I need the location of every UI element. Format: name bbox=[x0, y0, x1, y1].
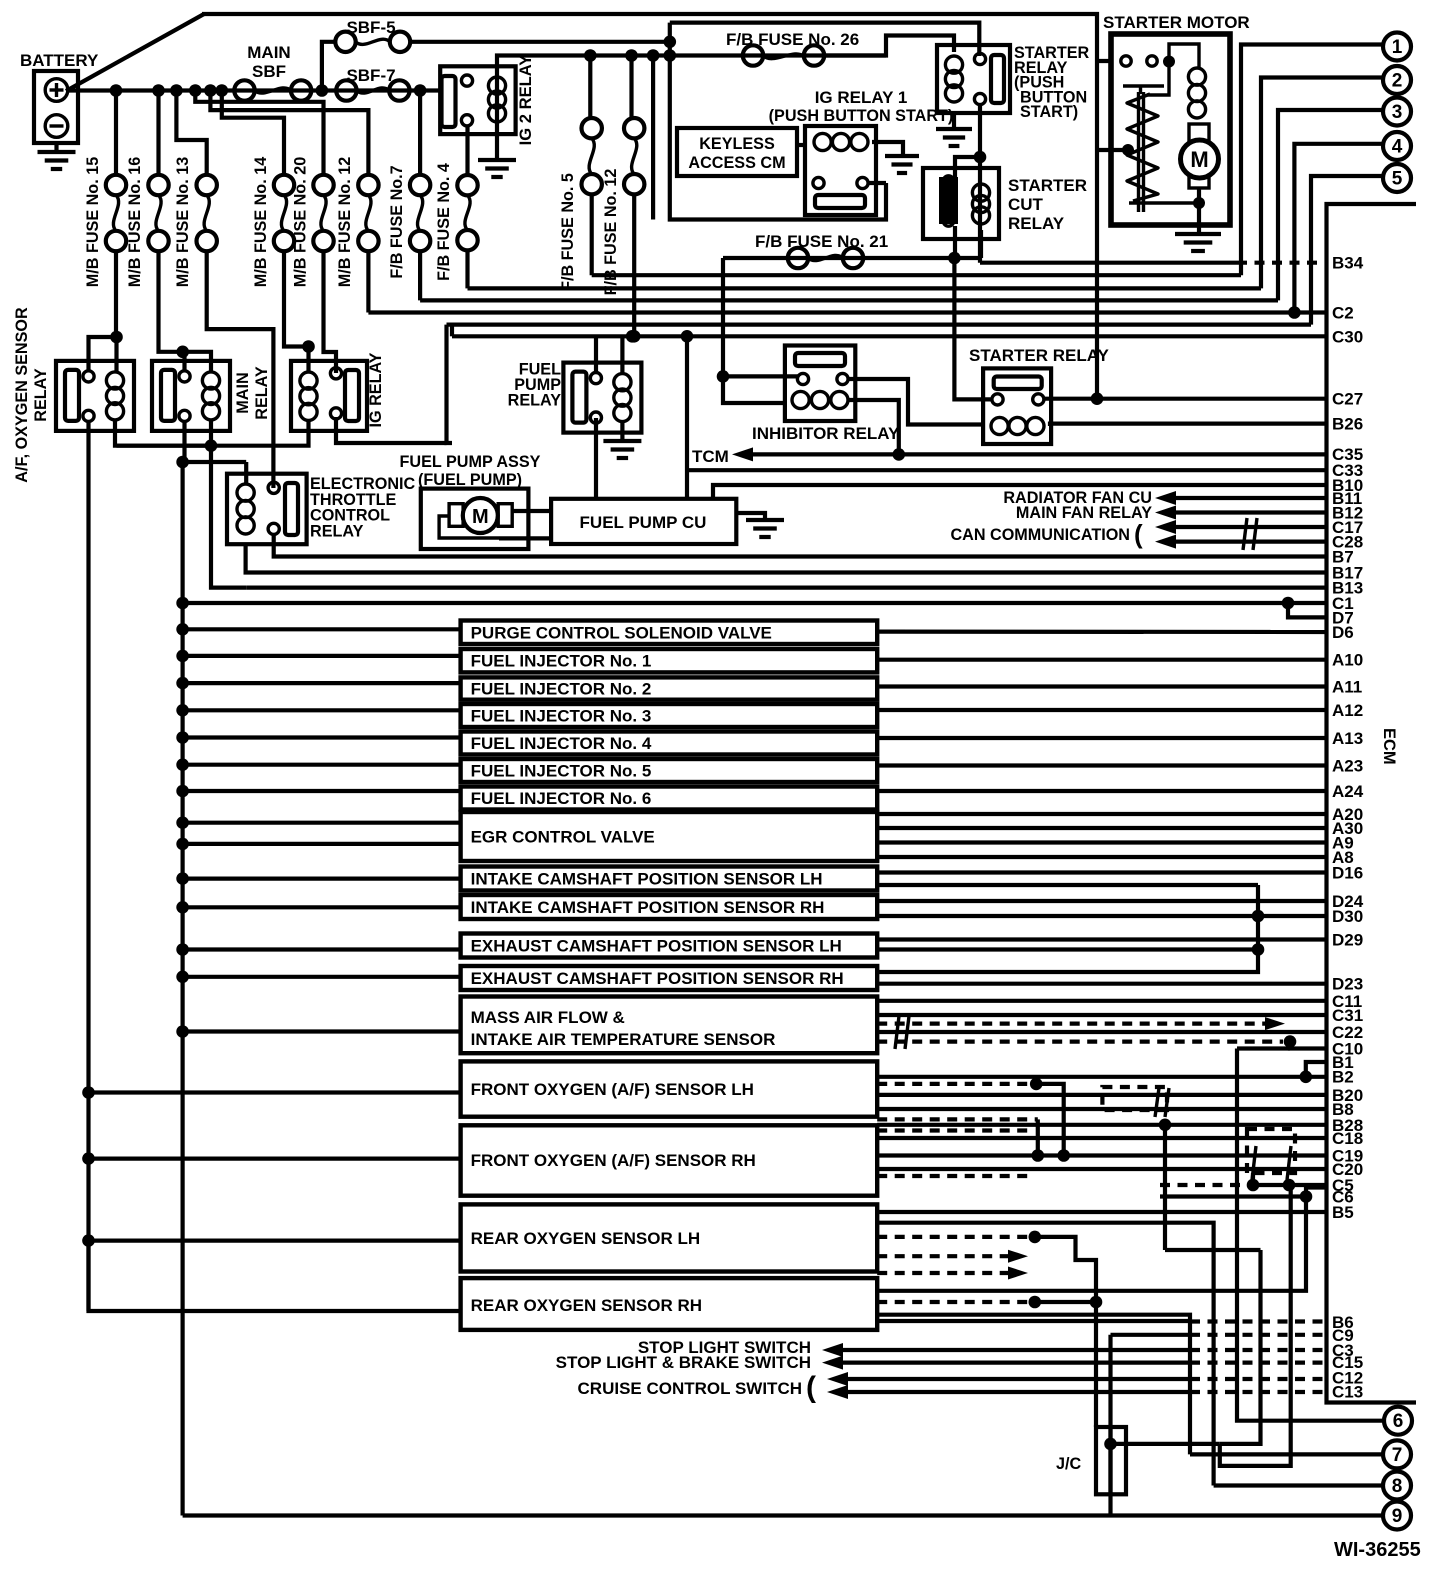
fuse F/B FUSE No. 12 bbox=[624, 118, 644, 194]
wire inj3 pin A12 bbox=[877, 708, 1326, 712]
wire C27 row bbox=[1044, 397, 1326, 401]
svg-text:CUT: CUT bbox=[1008, 195, 1044, 214]
wire IG relay contact out bbox=[336, 417, 447, 443]
wire J/C stub to row9 bbox=[1108, 1494, 1112, 1515]
svg-text:C13: C13 bbox=[1332, 1382, 1363, 1401]
junction C6 bbox=[1300, 1190, 1313, 1203]
wire M/B fuse13 to ETC relay bbox=[207, 251, 274, 488]
wire fp relay contact to CU bbox=[594, 418, 598, 499]
wire fp relay contact feed bbox=[594, 336, 598, 374]
svg-text:FUEL INJECTOR No. 3: FUEL INJECTOR No. 3 bbox=[471, 707, 652, 726]
svg-text:D6: D6 bbox=[1332, 623, 1354, 642]
motor M bbox=[1181, 140, 1219, 178]
junction rear RH shield bbox=[1029, 1296, 1042, 1309]
relay inhibitor bbox=[785, 346, 855, 422]
arrow rear shield c bbox=[1008, 1267, 1028, 1280]
wire circle7 horizontal bbox=[1190, 1452, 1383, 1456]
wire cam jog vertical bbox=[877, 885, 1258, 972]
starter plunger bbox=[1189, 124, 1209, 188]
ground fuel pump relay bbox=[603, 441, 641, 458]
connector circle 2 bbox=[1383, 66, 1411, 94]
svg-text:RELAY: RELAY bbox=[508, 392, 562, 410]
svg-text:START): START) bbox=[1020, 103, 1078, 121]
svg-text:D29: D29 bbox=[1332, 931, 1363, 950]
battery ground bbox=[54, 143, 58, 152]
wire main contact bus down bbox=[181, 462, 185, 1516]
wire B28 row bbox=[877, 1123, 1326, 1127]
wire egr pin A9 bbox=[877, 840, 1326, 844]
svg-text:B5: B5 bbox=[1332, 1203, 1354, 1222]
arrow TCM bbox=[732, 447, 753, 461]
junction bus x=420.1 bbox=[414, 84, 427, 97]
connector circle 4 bbox=[1383, 132, 1411, 160]
svg-text:CRUISE CONTROL SWITCH: CRUISE CONTROL SWITCH bbox=[578, 1379, 802, 1398]
wire inhibitor pin feed bbox=[723, 374, 798, 378]
EXHAUST CAMSHAFT POSITION SENSOR RH box bbox=[461, 966, 878, 990]
wire M/B fuse16 to main relay bbox=[159, 251, 183, 352]
maf shield dashed bottom bbox=[877, 1039, 1283, 1043]
wire IG2 coil ground stem bbox=[495, 134, 499, 160]
wire PBS pin to B34 bbox=[978, 183, 982, 263]
svg-text:EGR CONTROL VALVE: EGR CONTROL VALVE bbox=[471, 828, 655, 847]
svg-text:RELAY: RELAY bbox=[310, 522, 364, 540]
rear shield dashed c bbox=[877, 1271, 1008, 1275]
FUEL INJECTOR No. 1 box bbox=[461, 649, 878, 672]
svg-text:F/B FUSE No. 5: F/B FUSE No. 5 bbox=[559, 173, 577, 291]
arrow C13 bbox=[827, 1385, 848, 1399]
junction C2 bbox=[1288, 306, 1301, 319]
arrow rear LH shield bbox=[1008, 1250, 1028, 1263]
junction F/B fuse12 feed bbox=[625, 49, 638, 62]
junction bus stub y=737.5 bbox=[176, 731, 189, 744]
svg-text:(: ( bbox=[806, 1371, 816, 1404]
junction C5 bbox=[1247, 1179, 1260, 1192]
wire cam jog intake LH bbox=[877, 883, 1258, 887]
junction bus stub y=878.6 bbox=[176, 872, 189, 885]
KEYLESS ACCESS CM box bbox=[677, 128, 797, 176]
FUEL INJECTOR No. 4 box bbox=[461, 732, 878, 755]
EGR CONTROL VALVE box bbox=[461, 812, 878, 861]
wire feed M/B fuse 13 bbox=[176, 91, 206, 177]
wire PBS pin down bbox=[978, 104, 982, 183]
wire fp relay coil ground bbox=[620, 422, 624, 441]
junction SBF-5 enclosure bbox=[664, 36, 677, 49]
wire to circle 4 bbox=[1294, 144, 1382, 313]
svg-text:M/B FUSE No. 12: M/B FUSE No. 12 bbox=[336, 157, 354, 287]
svg-text:M/B FUSE No. 16: M/B FUSE No. 16 bbox=[126, 157, 144, 287]
wire row 3 (fuse7) bbox=[420, 298, 1278, 302]
fuse F/B FUSE No. 7 bbox=[410, 175, 430, 251]
FUEL INJECTOR No. 6 box bbox=[461, 787, 878, 810]
wire circle6 vertical bbox=[1237, 1049, 1383, 1421]
wire SBF-5 to enclosure bbox=[410, 40, 670, 44]
junction oxygen feed y=1092.5 bbox=[82, 1086, 95, 1099]
relay A/F oxygen sensor relay bbox=[56, 361, 134, 431]
wire solenoid to field bbox=[1147, 62, 1169, 96]
arrow C3 bbox=[822, 1343, 843, 1357]
svg-text:F/B FUSE No. 21: F/B FUSE No. 21 bbox=[755, 232, 888, 251]
wire fuse21 row bbox=[723, 256, 981, 260]
junction bus stub y=710.3 bbox=[176, 704, 189, 717]
wire coil control row bbox=[117, 444, 274, 448]
wire intake RH pin D24 bbox=[877, 899, 1326, 903]
wire intake LH pin D16 bbox=[877, 870, 1326, 874]
junction C19 shield links bbox=[1032, 1149, 1045, 1162]
wire starter relay pin feed bbox=[954, 258, 992, 399]
wire ETC coil top bbox=[244, 462, 248, 484]
junction B2 bbox=[1300, 1071, 1313, 1084]
svg-text:STARTER: STARTER bbox=[1008, 176, 1087, 195]
svg-text:M/B FUSE No. 15: M/B FUSE No. 15 bbox=[84, 157, 102, 287]
wire solenoid top bbox=[1169, 44, 1199, 67]
wire C3 row bbox=[840, 1348, 1190, 1352]
svg-text:5: 5 bbox=[1392, 169, 1403, 190]
wire to circle 3 bbox=[1278, 110, 1382, 300]
wire rear LH row to circle8 bbox=[877, 1223, 1213, 1486]
wire M/B fuse12 to row C2 bbox=[366, 251, 370, 313]
wire rear RH row bbox=[877, 1197, 1306, 1291]
wire C33 row bbox=[687, 468, 1326, 472]
wire chain down bbox=[1220, 1185, 1291, 1466]
svg-text:4: 4 bbox=[1392, 137, 1403, 158]
wire C6 jog bbox=[1306, 1188, 1326, 1197]
junction oxygen feed y=1240.6 bbox=[82, 1234, 95, 1247]
junction bus stub y=976.8 bbox=[176, 971, 189, 984]
wire row C2 bbox=[368, 310, 1326, 314]
svg-text:CAN COMMUNICATION: CAN COMMUNICATION bbox=[950, 526, 1130, 544]
wire pump to CU lower bbox=[499, 536, 551, 540]
junction bus x=210.4 bbox=[204, 84, 217, 97]
wire M/B fuse14 to IG relay bbox=[284, 251, 309, 347]
ground starter motor bbox=[1175, 234, 1221, 251]
relay starter relay bbox=[983, 368, 1051, 444]
wire inj6 pin A24 bbox=[877, 789, 1326, 793]
junction rear LH shield bbox=[1029, 1231, 1042, 1244]
svg-text:1: 1 bbox=[1392, 37, 1403, 58]
relay starter relay PBS bbox=[937, 45, 1010, 113]
svg-text:C30: C30 bbox=[1332, 327, 1363, 346]
FUEL INJECTOR No. 2 box bbox=[461, 677, 878, 699]
svg-text:A11: A11 bbox=[1332, 678, 1362, 697]
svg-text:ACCESS CM: ACCESS CM bbox=[688, 154, 785, 172]
rear RH shield dashed bbox=[877, 1300, 1035, 1304]
fuse F/B FUSE No. 26 bbox=[743, 45, 824, 65]
wire feed M/B fuse 16 bbox=[156, 91, 160, 177]
wire maf pin C11 bbox=[877, 999, 1326, 1003]
wire egr pin A8 bbox=[877, 855, 1326, 859]
junction inhibitor feed bbox=[717, 370, 730, 383]
wire maf pin C31 bbox=[877, 1013, 1326, 1017]
wire C15 row bbox=[840, 1360, 1190, 1364]
wire C6 row bbox=[1160, 1194, 1306, 1198]
wire fuse21 to inhibitor bbox=[721, 258, 725, 376]
FRONT OXYGEN RH box bbox=[461, 1125, 878, 1195]
svg-text:6: 6 bbox=[1393, 1411, 1404, 1432]
svg-text:IG RELAY 1: IG RELAY 1 bbox=[815, 88, 908, 107]
wire jog to cut relay contact bbox=[955, 157, 980, 177]
junction fuse21 row bbox=[948, 252, 961, 265]
wire feed M/B fuse 12 bbox=[210, 91, 368, 177]
junction F/B fuse5 feed bbox=[584, 49, 597, 62]
relay fuel pump relay bbox=[563, 363, 641, 433]
junction C1 bbox=[176, 597, 189, 610]
fuse MAIN SBF bbox=[234, 80, 311, 100]
wire row to IG2 coil and FB fuses bbox=[497, 56, 590, 135]
wire battery positive bus bbox=[68, 88, 440, 92]
connector circle 7 bbox=[1383, 1440, 1411, 1468]
wire PBS coil ground bbox=[952, 111, 956, 129]
svg-text:7: 7 bbox=[1392, 1445, 1403, 1466]
wire B11 row bbox=[1172, 496, 1326, 500]
twist marks maf shield bbox=[895, 1016, 909, 1049]
junction keyless drop bbox=[647, 49, 660, 62]
svg-text:C27: C27 bbox=[1332, 390, 1363, 409]
wire IG relay coil bottom to row bbox=[273, 420, 308, 446]
rear LH shield dashed bbox=[877, 1235, 1035, 1239]
front LH shield bottom dashed bbox=[877, 1117, 1038, 1121]
starter spring winding bbox=[1127, 94, 1158, 201]
relay starter cut bbox=[923, 168, 999, 239]
svg-text:B2: B2 bbox=[1332, 1067, 1354, 1086]
enclosure keyless/IG relay1 bbox=[670, 23, 886, 220]
wire C20 row bbox=[877, 1167, 1326, 1171]
wire exhaust LH pin D29 bbox=[877, 937, 1326, 941]
svg-text:F/B FUSE No. 4: F/B FUSE No. 4 bbox=[435, 163, 453, 281]
junction bus stub y=683.1 bbox=[176, 677, 189, 690]
wire top line to starter motor bbox=[202, 14, 1097, 61]
svg-text:STARTER RELAY: STARTER RELAY bbox=[969, 346, 1109, 365]
fuse F/B FUSE No. 21 bbox=[788, 248, 863, 268]
wire inj4 pin A13 bbox=[877, 736, 1326, 740]
svg-text:A24: A24 bbox=[1332, 782, 1364, 801]
wire B28 drop bbox=[1163, 1125, 1167, 1250]
wire C19 row bbox=[877, 1153, 1326, 1157]
svg-text:EXHAUST CAMSHAFT POSITION SENS: EXHAUST CAMSHAFT POSITION SENSOR RH bbox=[471, 969, 844, 988]
wire C5 row solid bbox=[1253, 1183, 1326, 1187]
wire row9 bbox=[183, 1513, 1383, 1517]
wire chain from C18 zone bbox=[1220, 1250, 1261, 1444]
wire starter S down to C27 bbox=[1095, 61, 1099, 399]
wire F/B fuse12 to row C30 bbox=[632, 194, 636, 336]
fuse M/B FUSE No. 15 bbox=[106, 175, 126, 251]
svg-text:D30: D30 bbox=[1332, 907, 1363, 926]
svg-text:B34: B34 bbox=[1332, 254, 1364, 273]
wire C5 row dashed bbox=[1160, 1183, 1253, 1187]
junction B17 riser bbox=[176, 456, 189, 469]
svg-text:WI-36255: WI-36255 bbox=[1334, 1539, 1421, 1561]
junction bus x=321.9 bbox=[316, 84, 329, 97]
wire to circle 5 bbox=[1311, 176, 1382, 325]
connector circle 1 bbox=[1383, 33, 1411, 61]
wire drop to enclosure bottom bbox=[651, 56, 655, 220]
wire maf pin C22 bbox=[877, 1030, 1326, 1034]
wire D7 jog bbox=[1288, 603, 1326, 617]
arrow C12 bbox=[827, 1372, 848, 1386]
connector circle 3 bbox=[1383, 98, 1411, 126]
svg-text:M: M bbox=[472, 506, 489, 528]
front RH shield dashed a bbox=[877, 1128, 1030, 1132]
wire IG relay1 to ground bbox=[872, 142, 903, 156]
wire row 5 (IG2) bbox=[447, 323, 1312, 327]
FRONT OXYGEN LH box bbox=[461, 1061, 878, 1116]
wire ETC coil bottom to B17 row bbox=[246, 543, 1326, 573]
wire IG2 contact drop bbox=[447, 325, 453, 443]
junction bus stub y=843.9 bbox=[176, 838, 189, 851]
relay electronic throttle control bbox=[227, 474, 307, 545]
wire B12 row bbox=[1172, 510, 1326, 514]
svg-text:INTAKE CAMSHAFT POSITION SENSO: INTAKE CAMSHAFT POSITION SENSOR RH bbox=[471, 898, 825, 917]
junction bus x=176.4 bbox=[170, 84, 183, 97]
wire J/C riser bbox=[1108, 1335, 1112, 1495]
FUEL PUMP CU box bbox=[551, 499, 736, 544]
rear LH shield dashed b bbox=[877, 1254, 1008, 1258]
svg-text:MASS AIR FLOW &: MASS AIR FLOW & bbox=[471, 1008, 625, 1027]
junction bus stub y=764.7 bbox=[176, 758, 189, 771]
svg-text:M: M bbox=[1190, 147, 1208, 172]
svg-text:IG RELAY: IG RELAY bbox=[367, 352, 385, 427]
arrow C17 bbox=[1155, 520, 1176, 534]
svg-text:STOP LIGHT & BRAKE SWITCH: STOP LIGHT & BRAKE SWITCH bbox=[556, 1353, 811, 1372]
wire cut relay coil down bbox=[979, 230, 983, 258]
wire B10 riser bbox=[713, 485, 1326, 499]
svg-text:FUEL INJECTOR No. 6: FUEL INJECTOR No. 6 bbox=[471, 789, 652, 808]
relay IG relay bbox=[291, 361, 367, 431]
wire into winding bbox=[1097, 148, 1128, 152]
wire inj5 pin A23 bbox=[877, 763, 1326, 767]
wire M/B fuse20 to IG relay contact bbox=[324, 251, 337, 373]
junction A/F feed bbox=[110, 331, 123, 344]
junction main relay feed bbox=[176, 346, 189, 359]
wire inj1 pin A10 bbox=[877, 658, 1326, 662]
junction bus stub y=791 bbox=[176, 785, 189, 798]
junction C30 CU riser bbox=[681, 330, 694, 343]
starter field T bar bbox=[1123, 86, 1164, 94]
connector circle 8 bbox=[1383, 1472, 1411, 1500]
svg-text:(FUEL PUMP): (FUEL PUMP) bbox=[418, 471, 522, 489]
wire circle8 horizontal bbox=[1214, 1483, 1383, 1487]
fuse M/B FUSE No. 14 bbox=[274, 175, 294, 251]
wire chain horizontal bbox=[1165, 1248, 1261, 1252]
wire C9 row bbox=[1111, 1333, 1191, 1337]
junction IG relay feed bbox=[302, 340, 315, 353]
wire row C30 to fuel pump relay bbox=[450, 334, 454, 338]
wire diagonal battery to top line bbox=[66, 14, 204, 91]
MASS AIR FLOW sensor box bbox=[461, 997, 878, 1054]
svg-text:FRONT OXYGEN (A/F) SENSOR RH: FRONT OXYGEN (A/F) SENSOR RH bbox=[471, 1151, 756, 1170]
junction bus x=221.8 bbox=[216, 84, 229, 97]
wire C5 shield drop bbox=[1251, 1173, 1255, 1185]
svg-text:9: 9 bbox=[1392, 1506, 1403, 1527]
wire B26 row bbox=[1050, 424, 1326, 426]
junction bus x=116 bbox=[110, 84, 123, 97]
REAR OXYGEN LH box bbox=[461, 1204, 878, 1271]
svg-text:FUEL PUMP ASSY: FUEL PUMP ASSY bbox=[400, 453, 541, 471]
op IG relay 1 bbox=[805, 126, 876, 215]
fuse SBF-5 bbox=[335, 32, 410, 52]
svg-text:MAIN: MAIN bbox=[247, 43, 290, 62]
REAR OXYGEN RH box bbox=[461, 1278, 878, 1330]
junction C27 starter motor bbox=[1091, 392, 1104, 405]
svg-text:TCM: TCM bbox=[692, 447, 729, 466]
fuse M/B FUSE No. 16 bbox=[148, 175, 168, 251]
arrow B12 bbox=[1155, 506, 1176, 520]
starter motor bbox=[1111, 34, 1230, 225]
wire B17 riser bbox=[183, 460, 247, 464]
wire C10 row to circle6 vertical bbox=[1237, 1046, 1290, 1050]
junction bus stub y=907.3 bbox=[176, 901, 189, 914]
junction C30 fuse12 bbox=[628, 330, 641, 343]
svg-text:INTAKE CAMSHAFT POSITION SENSO: INTAKE CAMSHAFT POSITION SENSOR LH bbox=[471, 870, 823, 889]
FUEL INJECTOR No. 5 box bbox=[461, 759, 878, 782]
wire C35 row bbox=[750, 452, 1326, 456]
svg-text:FUEL INJECTOR No. 4: FUEL INJECTOR No. 4 bbox=[471, 734, 652, 753]
junction cam jog D30 bbox=[1252, 910, 1265, 923]
svg-text:A13: A13 bbox=[1332, 729, 1363, 748]
junction motor bottom bbox=[1193, 197, 1205, 209]
junction coil row bbox=[205, 439, 218, 452]
wire B8 row bbox=[877, 1107, 1326, 1111]
junction starter cut feed bbox=[974, 151, 987, 164]
junction fuel pump relay coil feed bbox=[626, 330, 639, 343]
fuse F/B FUSE No. 5 bbox=[582, 118, 602, 194]
junction B28 drop bbox=[1159, 1119, 1172, 1132]
svg-text:A/F, OXYGEN SENSOR: A/F, OXYGEN SENSOR bbox=[13, 307, 31, 483]
wire row C30 bbox=[452, 334, 1326, 338]
svg-text:B26: B26 bbox=[1332, 415, 1363, 434]
svg-text:M/B FUSE No. 14: M/B FUSE No. 14 bbox=[252, 157, 270, 287]
wire motor to ground bbox=[1197, 188, 1201, 233]
wire A/F coil to row bbox=[115, 420, 210, 446]
svg-text:KEYLESS: KEYLESS bbox=[699, 135, 775, 153]
ground fuel pump CU bbox=[746, 520, 784, 537]
wire inhibitor coil feed bbox=[723, 376, 786, 403]
svg-text:RELAY: RELAY bbox=[32, 368, 50, 422]
coil starter solenoid bbox=[1188, 68, 1205, 118]
IG 2 relay bbox=[440, 66, 515, 134]
svg-text:M/B FUSE No. 20: M/B FUSE No. 20 bbox=[292, 157, 310, 287]
wire row 1 (fuse5) bbox=[592, 273, 1241, 277]
svg-text:MAIN FAN RELAY: MAIN FAN RELAY bbox=[1016, 504, 1152, 522]
junction enclosure F/B26 row bbox=[664, 49, 677, 62]
junction bus stub y=1031.5 bbox=[176, 1025, 189, 1038]
fuse M/B FUSE No. 20 bbox=[313, 175, 333, 251]
wire B6 row bbox=[877, 1319, 1190, 1323]
wire F/B fuse12 feed bbox=[629, 56, 633, 120]
connector circle 9 bbox=[1383, 1502, 1411, 1530]
fuse M/B FUSE No. 13 bbox=[197, 175, 217, 251]
wire main contact output bus bbox=[182, 420, 186, 462]
svg-text:IG 2 RELAY: IG 2 RELAY bbox=[516, 55, 535, 146]
connector circle 5 bbox=[1383, 164, 1411, 192]
battery bbox=[34, 71, 78, 143]
wire starter motor S terminal bbox=[1097, 59, 1121, 63]
wire C33 riser bbox=[685, 336, 689, 499]
wire J/C riser inner bbox=[1108, 1427, 1112, 1494]
junction bus stub y=629.3 bbox=[176, 623, 189, 636]
wire row fb26 feed bbox=[590, 53, 886, 57]
svg-text:RELAY: RELAY bbox=[1008, 214, 1065, 233]
svg-text:(: ( bbox=[1134, 519, 1143, 549]
junction J/C bbox=[1104, 1438, 1117, 1451]
wire F/B fuse7 to row 3 bbox=[418, 251, 422, 300]
junction maf shield bbox=[1284, 1035, 1297, 1048]
ground IG2 relay bbox=[478, 160, 516, 177]
wire LH shield bottom link bbox=[1036, 1119, 1040, 1155]
wire A/F contact output bbox=[86, 420, 90, 1311]
twist marks B20 B8 bbox=[1155, 1088, 1169, 1117]
svg-text:C18: C18 bbox=[1332, 1129, 1363, 1148]
junction oxygen feed y=1158.6 bbox=[82, 1152, 95, 1165]
